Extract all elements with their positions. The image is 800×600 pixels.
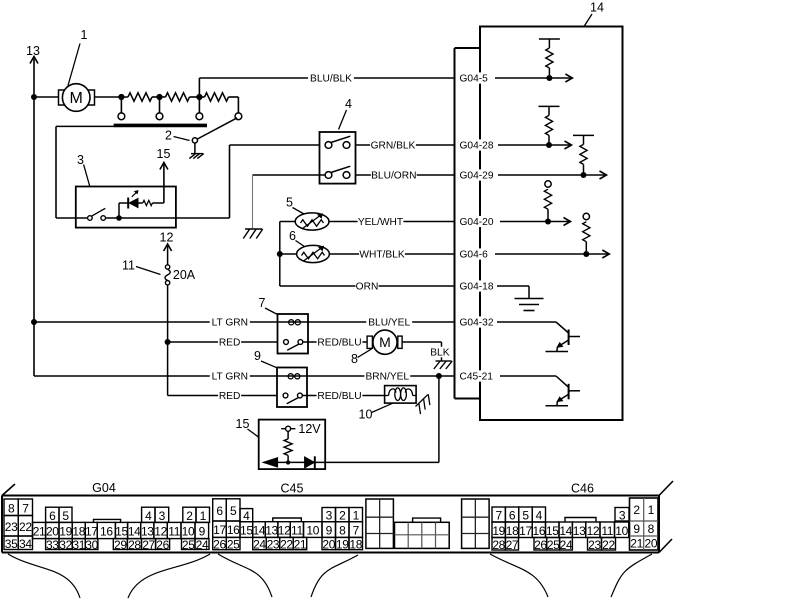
svg-text:17: 17 xyxy=(519,524,532,538)
svg-text:10: 10 xyxy=(615,524,628,538)
svg-text:15: 15 xyxy=(546,524,559,538)
svg-text:25: 25 xyxy=(182,538,195,552)
svg-text:17: 17 xyxy=(213,523,226,537)
svg-text:23: 23 xyxy=(588,538,601,552)
svg-text:14: 14 xyxy=(128,525,141,539)
svg-text:14: 14 xyxy=(559,524,572,538)
svg-text:6: 6 xyxy=(509,509,516,523)
svg-text:13: 13 xyxy=(573,524,586,538)
svg-text:13: 13 xyxy=(141,525,154,539)
svg-text:20A: 20A xyxy=(173,268,196,282)
svg-text:12: 12 xyxy=(278,524,291,538)
svg-text:3: 3 xyxy=(619,508,626,522)
svg-text:GRN/BLK: GRN/BLK xyxy=(371,141,416,152)
svg-text:3: 3 xyxy=(77,153,84,167)
svg-text:26: 26 xyxy=(156,538,169,552)
svg-text:1: 1 xyxy=(648,503,655,517)
svg-text:RED/BLU: RED/BLU xyxy=(317,391,361,402)
svg-text:G04-5: G04-5 xyxy=(460,74,489,85)
svg-text:20: 20 xyxy=(645,537,658,551)
svg-text:BLU/BLK: BLU/BLK xyxy=(310,74,352,85)
svg-text:21: 21 xyxy=(630,537,643,551)
svg-text:11: 11 xyxy=(291,524,303,538)
svg-text:29: 29 xyxy=(114,538,127,552)
svg-text:C45: C45 xyxy=(281,482,304,496)
svg-text:20: 20 xyxy=(322,538,335,552)
svg-text:3: 3 xyxy=(326,509,333,523)
svg-text:9: 9 xyxy=(326,524,333,538)
svg-text:20: 20 xyxy=(46,525,59,539)
svg-text:6: 6 xyxy=(49,509,56,523)
svg-text:WHT/BLK: WHT/BLK xyxy=(359,250,404,261)
svg-text:G04-28: G04-28 xyxy=(460,141,494,152)
svg-text:6: 6 xyxy=(289,229,296,243)
svg-text:7: 7 xyxy=(22,501,29,515)
svg-text:26: 26 xyxy=(534,538,547,552)
svg-text:16: 16 xyxy=(533,524,546,538)
svg-text:G04-6: G04-6 xyxy=(460,250,489,261)
svg-text:BLK: BLK xyxy=(430,348,449,359)
svg-text:16: 16 xyxy=(100,525,113,539)
svg-text:8: 8 xyxy=(339,524,346,538)
svg-text:3: 3 xyxy=(159,509,166,523)
svg-text:27: 27 xyxy=(142,538,155,552)
svg-text:1: 1 xyxy=(200,509,207,523)
svg-text:17: 17 xyxy=(85,525,98,539)
svg-text:11: 11 xyxy=(168,525,180,539)
svg-text:5: 5 xyxy=(230,504,237,518)
svg-text:21: 21 xyxy=(33,525,46,539)
svg-text:8: 8 xyxy=(8,501,15,515)
svg-text:BLU/ORN: BLU/ORN xyxy=(371,171,416,182)
svg-text:15: 15 xyxy=(236,417,250,431)
svg-text:24: 24 xyxy=(253,538,266,552)
svg-text:15: 15 xyxy=(157,147,171,161)
svg-text:1: 1 xyxy=(353,509,360,523)
svg-text:5: 5 xyxy=(522,509,529,523)
svg-text:12: 12 xyxy=(587,524,600,538)
svg-text:28: 28 xyxy=(492,538,505,552)
svg-text:18: 18 xyxy=(349,538,362,552)
svg-text:C45-21: C45-21 xyxy=(460,372,494,383)
svg-text:10: 10 xyxy=(182,525,195,539)
svg-text:2: 2 xyxy=(165,129,172,143)
svg-text:27: 27 xyxy=(506,538,519,552)
svg-text:19: 19 xyxy=(492,524,505,538)
svg-text:33: 33 xyxy=(46,538,59,552)
svg-text:14: 14 xyxy=(590,1,604,15)
svg-text:12: 12 xyxy=(160,231,174,245)
svg-text:BLU/YEL: BLU/YEL xyxy=(368,318,410,329)
svg-text:32: 32 xyxy=(59,538,72,552)
svg-text:11: 11 xyxy=(122,259,135,273)
svg-text:7: 7 xyxy=(259,296,266,310)
svg-text:M: M xyxy=(70,90,83,107)
svg-text:12V: 12V xyxy=(298,422,321,436)
svg-text:1: 1 xyxy=(81,28,88,42)
svg-text:14: 14 xyxy=(253,524,266,538)
svg-text:9: 9 xyxy=(254,349,261,363)
svg-text:30: 30 xyxy=(85,538,98,552)
svg-text:10: 10 xyxy=(359,408,373,422)
svg-text:28: 28 xyxy=(128,538,141,552)
svg-text:19: 19 xyxy=(336,538,349,552)
svg-text:23: 23 xyxy=(5,520,18,534)
svg-text:LT GRN: LT GRN xyxy=(212,372,248,383)
svg-text:10: 10 xyxy=(306,524,319,538)
svg-text:LT GRN: LT GRN xyxy=(212,318,248,329)
svg-text:RED/BLU: RED/BLU xyxy=(317,338,361,349)
svg-text:6: 6 xyxy=(216,504,223,518)
svg-text:24: 24 xyxy=(560,538,573,552)
svg-text:15: 15 xyxy=(115,525,128,539)
svg-text:12: 12 xyxy=(154,525,167,539)
svg-text:BRN/YEL: BRN/YEL xyxy=(365,372,409,383)
svg-text:4: 4 xyxy=(145,509,152,523)
svg-text:9: 9 xyxy=(199,525,206,539)
svg-text:13: 13 xyxy=(265,524,278,538)
svg-text:RED: RED xyxy=(219,391,241,402)
svg-text:34: 34 xyxy=(19,537,32,551)
svg-text:22: 22 xyxy=(280,538,293,552)
svg-text:G04-18: G04-18 xyxy=(460,282,494,293)
svg-text:18: 18 xyxy=(506,524,519,538)
svg-text:7: 7 xyxy=(496,509,503,523)
svg-text:19: 19 xyxy=(59,525,72,539)
svg-text:G04: G04 xyxy=(92,481,116,495)
svg-text:11: 11 xyxy=(601,524,613,538)
svg-text:2: 2 xyxy=(186,509,193,523)
svg-text:31: 31 xyxy=(72,538,85,552)
svg-text:22: 22 xyxy=(19,520,32,534)
svg-text:G04-32: G04-32 xyxy=(460,318,494,329)
svg-text:5: 5 xyxy=(62,509,69,523)
svg-text:G04-20: G04-20 xyxy=(460,217,494,228)
svg-text:22: 22 xyxy=(602,538,615,552)
svg-text:21: 21 xyxy=(294,538,307,552)
svg-text:26: 26 xyxy=(213,538,226,552)
svg-text:15: 15 xyxy=(240,524,253,538)
svg-text:18: 18 xyxy=(72,525,85,539)
svg-text:35: 35 xyxy=(5,537,18,551)
svg-text:5: 5 xyxy=(286,196,293,210)
svg-text:7: 7 xyxy=(353,524,360,538)
svg-text:YEL/WHT: YEL/WHT xyxy=(358,217,403,228)
svg-text:M: M xyxy=(379,334,391,350)
svg-text:8: 8 xyxy=(648,522,655,536)
svg-text:4: 4 xyxy=(345,97,352,111)
svg-text:25: 25 xyxy=(227,538,240,552)
svg-text:24: 24 xyxy=(196,538,209,552)
svg-text:16: 16 xyxy=(227,523,240,537)
svg-text:13: 13 xyxy=(26,44,40,58)
svg-text:2: 2 xyxy=(339,509,346,523)
svg-text:25: 25 xyxy=(547,538,560,552)
svg-text:23: 23 xyxy=(267,538,280,552)
svg-text:C46: C46 xyxy=(571,482,594,496)
svg-text:4: 4 xyxy=(536,509,543,523)
svg-text:RED: RED xyxy=(219,338,241,349)
svg-text:ORN: ORN xyxy=(356,282,379,293)
svg-text:G04-29: G04-29 xyxy=(460,171,494,182)
svg-text:2: 2 xyxy=(633,503,640,517)
svg-text:9: 9 xyxy=(633,522,640,536)
svg-text:8: 8 xyxy=(351,352,358,366)
